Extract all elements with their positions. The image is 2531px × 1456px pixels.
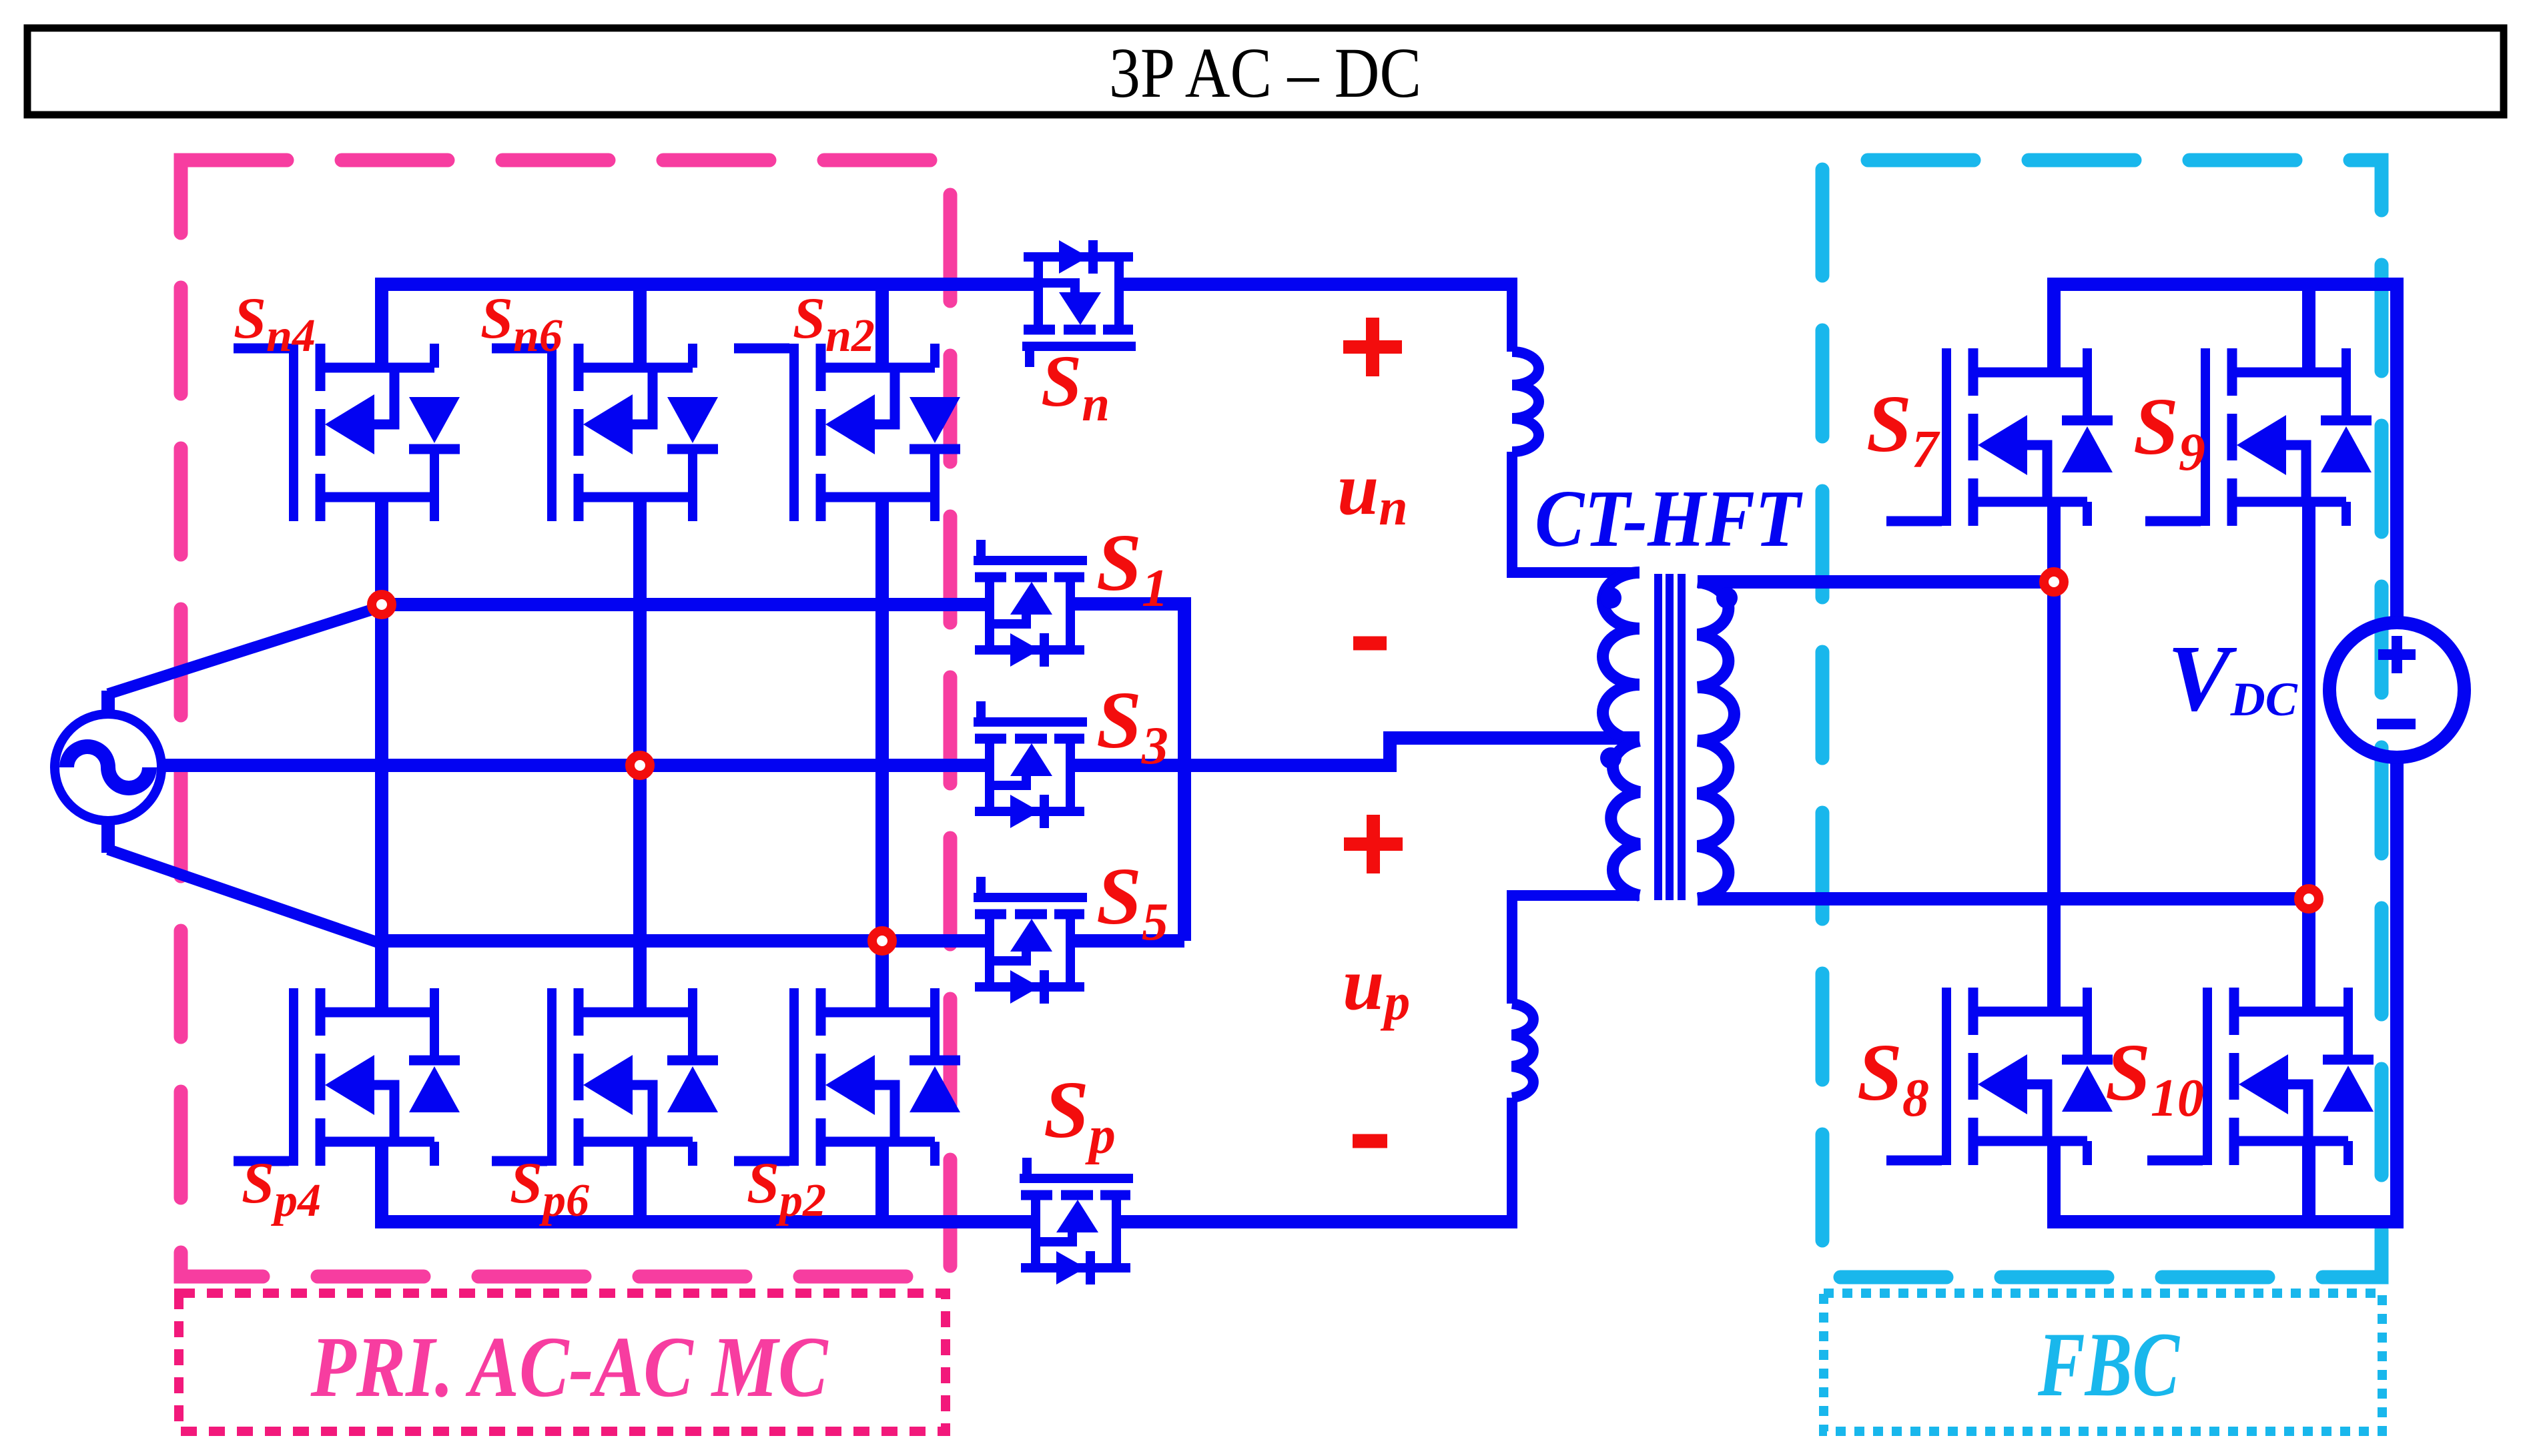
node FBC left junction	[2044, 572, 2064, 592]
transistor S5	[974, 877, 1087, 1004]
PRI. AC-AC MC dashed boundary box	[181, 160, 950, 1277]
wire bottom rail left	[375, 1215, 1036, 1228]
wire Sp4 source	[375, 1138, 388, 1222]
FBC dashed boundary box	[1822, 160, 2382, 1277]
wire S10 source	[2302, 1138, 2315, 1222]
svg-text:un: un	[1337, 448, 1408, 536]
VDC plus sign	[2378, 636, 2416, 673]
svg-text:S8: S8	[1857, 1028, 1929, 1128]
svg-text:Sp: Sp	[1044, 1065, 1116, 1165]
transistor S3	[974, 701, 1087, 828]
wire right bus S1-S5	[1178, 597, 1191, 941]
inductor upper (series)	[1507, 278, 1517, 352]
wire AC bottom stub	[101, 819, 115, 853]
transformer secondary winding	[1698, 582, 1734, 899]
wire secondary bottom lead	[1698, 892, 2309, 905]
transistor Sp6	[492, 988, 718, 1166]
svg-text:Sn4: Sn4	[234, 286, 316, 362]
transistor Sn2	[734, 344, 960, 521]
FBC dotted label box	[1824, 1293, 2382, 1431]
svg-text:3P AC – DC: 3P AC – DC	[1109, 34, 1421, 113]
wire diagonal phase c	[108, 849, 379, 943]
svg-text:S5: S5	[1096, 851, 1168, 952]
wire primary bottom lead	[1512, 895, 1640, 1004]
wire phase A bus	[375, 598, 990, 611]
transformer primary upper winding	[1603, 573, 1640, 741]
title box	[27, 28, 2504, 115]
wire top rail right to upper inductor	[1119, 278, 1517, 291]
wire column A	[375, 494, 388, 1016]
wire FBC top bus and right rail	[2047, 284, 2397, 623]
transistor Sp2	[734, 988, 960, 1166]
wire S1 output	[1070, 597, 1184, 611]
transistor S1	[974, 540, 1087, 667]
plus sign un	[1343, 318, 1402, 376]
transistor Sn4	[234, 344, 460, 521]
svg-text:Sn2: Sn2	[793, 286, 875, 362]
wire AC top stub	[101, 691, 115, 715]
transistor S7	[1886, 348, 2113, 526]
wire column B	[633, 494, 647, 1016]
node phase A junction	[372, 595, 392, 615]
wire Sn4 drain	[375, 284, 388, 372]
inductor lower (series)	[1512, 1004, 1533, 1098]
PRI. AC-AC MC dotted label box	[179, 1293, 946, 1431]
wire S3 output to transformer tap	[1070, 738, 1640, 765]
transistor S8	[1886, 988, 2113, 1165]
wire Sp2 source	[875, 1138, 889, 1222]
wire Sn2 drain	[875, 284, 889, 372]
wire phase C bus	[375, 934, 990, 948]
svg-text:VDC: VDC	[2167, 625, 2298, 731]
wire S9 drain	[2302, 284, 2315, 377]
transistor Sn6	[492, 344, 718, 521]
AC source sine symbol	[67, 747, 149, 788]
wire column C	[875, 494, 889, 1016]
svg-text:Sn6: Sn6	[480, 286, 563, 362]
transistor Sp4	[234, 988, 460, 1166]
svg-text:CT-HFT: CT-HFT	[1535, 474, 1803, 564]
transistor Sn	[1022, 240, 1136, 367]
wire phase B bus	[160, 759, 990, 772]
node phase B junction	[630, 755, 650, 775]
wire top rail left	[375, 278, 1038, 291]
svg-text:S9: S9	[2133, 382, 2205, 482]
transistor S9	[2145, 348, 2372, 526]
AC source circle	[55, 714, 161, 821]
wire S8 source	[2047, 1138, 2061, 1222]
transformer polarity dot secondary	[1716, 587, 1738, 609]
node FBC right junction	[2299, 889, 2319, 909]
transformer polarity dot upper primary	[1600, 587, 1621, 609]
wire bottom rail right to lower inductor	[1116, 1215, 1517, 1228]
svg-text:Sn: Sn	[1041, 340, 1110, 432]
svg-text:PRI. AC-AC MC: PRI. AC-AC MC	[310, 1319, 829, 1415]
VDC minus sign	[2377, 719, 2416, 729]
wire diagonal phase a	[108, 607, 382, 694]
minus sign un	[1353, 637, 1387, 651]
transformer polarity dot lower primary	[1600, 747, 1621, 769]
voltage source VDC circle	[2329, 623, 2464, 757]
wire Sn6 drain	[633, 284, 647, 372]
svg-text:S10: S10	[2105, 1028, 2204, 1128]
wire upper inductor to primary top	[1512, 452, 1640, 573]
transformer core lines	[1658, 574, 1682, 900]
wire FBC bottom rail and right rail lower	[2047, 757, 2397, 1222]
svg-text:S3: S3	[1096, 675, 1168, 775]
svg-text:up: up	[1343, 943, 1410, 1031]
transistor S10	[2147, 988, 2374, 1165]
transistor Sp	[1020, 1158, 1133, 1285]
wire S7 drain	[2047, 284, 2061, 377]
wire S7 source to S8 drain	[2047, 499, 2061, 1014]
svg-text:FBC: FBC	[2037, 1313, 2180, 1415]
node phase C junction	[872, 931, 892, 951]
wire S5 output	[1070, 934, 1184, 948]
plus sign up	[1344, 815, 1403, 873]
svg-text:S1: S1	[1096, 518, 1168, 618]
wire Sp6 source	[633, 1138, 647, 1222]
wire secondary top lead	[1698, 575, 2054, 589]
wire S9 source to S10 drain	[2302, 499, 2315, 1014]
svg-text:S7: S7	[1866, 379, 1940, 479]
transformer primary lower winding	[1611, 741, 1640, 895]
minus sign up	[1353, 1134, 1387, 1148]
